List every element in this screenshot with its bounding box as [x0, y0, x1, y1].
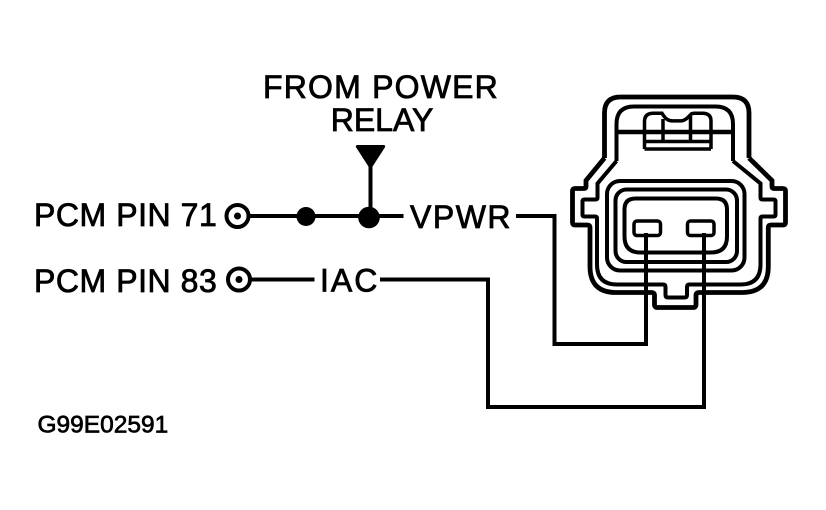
connector body outer outline	[573, 158, 786, 308]
latch bump inner edges	[661, 119, 665, 142]
label FROM POWER RELAY	[263, 69, 499, 138]
svg-text:PCM PIN 71: PCM PIN 71	[34, 197, 217, 233]
svg-text:VPWR: VPWR	[410, 199, 512, 235]
svg-text:G99E02591: G99E02591	[38, 412, 169, 439]
connector pocket	[625, 199, 728, 253]
connector housing cap inner	[617, 107, 734, 162]
wire from triangle to VPWR node	[369, 166, 373, 216]
pin 1 (VPWR)	[634, 221, 661, 236]
junction dot	[297, 207, 316, 226]
connector body inner outline	[583, 161, 776, 298]
latch box bottom	[645, 147, 712, 151]
svg-text:RELAY: RELAY	[331, 102, 434, 138]
wire pin83 to IAC	[252, 278, 315, 282]
connector housing cap outer	[605, 97, 750, 158]
latch bumps	[645, 113, 712, 149]
svg-text:FROM POWER: FROM POWER	[263, 69, 499, 105]
latch box midline	[645, 140, 712, 144]
wire IAC to connector right pin	[380, 233, 704, 407]
pin 2 (IAC)	[688, 221, 715, 236]
power feed triangle	[357, 147, 383, 168]
connector seal ring outer	[607, 181, 745, 271]
terminal PCM pin 71	[227, 205, 249, 227]
wire VPWR to connector left pin	[516, 216, 646, 344]
svg-text:IAC: IAC	[320, 263, 379, 299]
terminal PCM pin 83	[228, 269, 250, 291]
connector seal ring middle	[616, 190, 738, 263]
svg-text:PCM PIN 83: PCM PIN 83	[34, 263, 217, 299]
node VPWR junction dot	[358, 207, 380, 229]
wire pin71 to VPWR	[250, 214, 404, 218]
latch plate line	[617, 130, 734, 135]
